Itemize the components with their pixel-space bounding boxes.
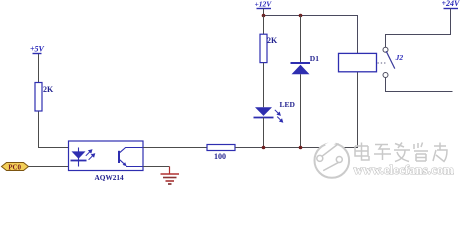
label AQW214 (95, 173, 125, 182)
svg-text:J2: J2 (395, 53, 404, 62)
svg-text:100: 100 (214, 152, 226, 161)
relay contact top (383, 47, 388, 52)
relay contact bottom (383, 73, 388, 78)
resistor R3 100 (207, 145, 235, 162)
label LED (280, 100, 296, 109)
watermark logo circle (315, 142, 350, 178)
optocoupler phototransistor (119, 148, 143, 167)
port PC0 (2, 163, 29, 172)
LED indicator (254, 107, 274, 117)
svg-text:+24V: +24V (442, 0, 460, 8)
svg-text:www.elecfans.com: www.elecfans.com (354, 163, 455, 177)
wire: +24V to top contact (386, 9, 451, 48)
optocoupler internal LED (71, 148, 87, 167)
svg-text:LED: LED (280, 100, 296, 109)
svg-text:PC0: PC0 (8, 163, 21, 171)
svg-text:2K: 2K (267, 36, 278, 45)
diode D1 (291, 54, 320, 74)
wire: D1 anode to node (300, 74, 302, 147)
wire: rail down to D1 cathode (300, 16, 302, 63)
svg-text:2K: 2K (43, 85, 54, 94)
wire: +12V rail to relay coil top (264, 16, 358, 54)
junction dot at node / LED chain (262, 146, 266, 150)
wire: R1 bottom down and right to optocoupler pin 1 (39, 111, 79, 148)
resistor R2 2K (260, 34, 278, 62)
optocoupler LED emission arrows (86, 150, 95, 160)
watermark logo note glyph (317, 144, 343, 171)
relay K1 coil (339, 53, 377, 71)
junction dot at +12V / D1 (299, 14, 303, 18)
wire: +5V stub to R1 top (38, 54, 40, 83)
svg-text:+5V: +5V (30, 45, 45, 54)
wire: LED cathode to node (263, 118, 265, 148)
relay linkage dotted line (378, 62, 387, 64)
wire: rail down to R2 top (263, 16, 265, 35)
power +12V (255, 0, 273, 15)
wire: phototransistor collector to R3 (143, 147, 207, 149)
resistor R1 2K (35, 83, 54, 112)
wire: emitter to ground (143, 166, 170, 168)
svg-text:AQW214: AQW214 (95, 173, 125, 182)
power +5V (30, 45, 45, 54)
svg-text:D1: D1 (310, 54, 319, 63)
optocoupler U1 AQW214 box (69, 141, 144, 171)
ground (161, 167, 180, 185)
junction dot at +12V / R2 (262, 14, 266, 18)
wire: PC0 to optocoupler pin 2 (29, 166, 79, 168)
label J2 (395, 53, 404, 62)
power +24V (442, 0, 460, 9)
svg-text:+12V: +12V (255, 0, 273, 9)
wire: R2 bottom to LED anode (263, 63, 265, 108)
wire: R3 right to relay coil bottom (235, 72, 358, 148)
wire: bottom contact out (386, 78, 453, 92)
LED emission arrows (275, 110, 283, 122)
watermark text 电子发烧友 (drawn strokes) (355, 143, 447, 162)
watermark text www.elecfans.com (354, 163, 455, 177)
junction dot at node / D1 (299, 146, 303, 150)
relay switch arm (386, 51, 395, 68)
